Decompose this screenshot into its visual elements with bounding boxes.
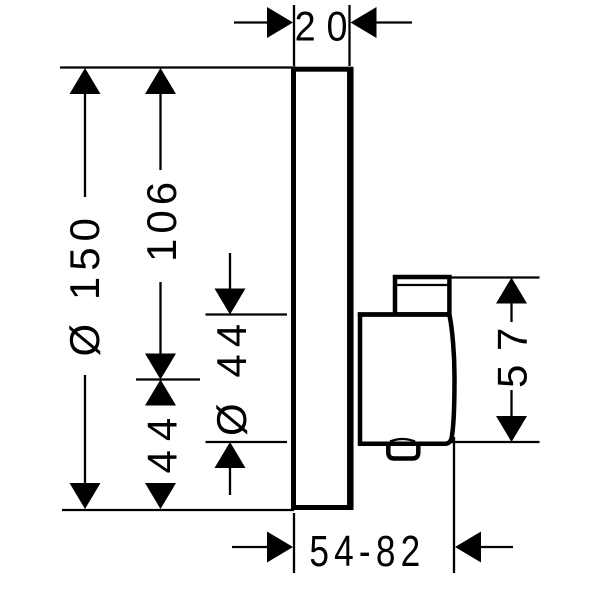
node: 57 bottom arrowhead [496,416,527,442]
wire: 57 dim line upper segment [510,302,512,323]
svg-text:Ø 150: Ø 150 [61,212,108,356]
handle body: shoulder top line [358,312,451,317]
wire: 106 dim line upper segment [159,92,161,170]
wire: dia150 dim line upper segment [84,92,86,197]
node: dia44 bottom arrowhead pointing up [215,442,246,468]
svg-text:44: 44 [139,409,186,474]
wire: bottom-left horizontal extension line [62,509,294,511]
wire: top-left horizontal extension line [60,66,296,68]
wire: 54-82 left extension line [293,513,295,573]
svg-text:Ø 44: Ø 44 [208,317,255,436]
handle knob: inner top line [397,284,449,286]
svg-text:54-82: 54-82 [309,527,425,576]
node: dia150 top arrowhead [70,68,101,94]
wire: dia44 bottom tick line [206,441,288,443]
wire: 106/44 junction tick line [136,378,200,380]
node: mid-44 bottom arrowhead [145,483,176,509]
svg-text:106: 106 [138,177,185,262]
wire: 106 dim line lower segment [159,282,161,355]
wire: 54-82 left arrow tail [232,546,268,548]
handle knob: upper small rectangle [395,277,449,315]
wire: 54-82 right arrow tail [481,546,513,548]
wire: dia150 dim line lower segment [84,375,86,485]
node: 57 top arrowhead [496,278,527,304]
wire: 54-82 right extension line [453,437,455,573]
node: 54-82 right arrowhead [455,532,481,563]
node: 20-dim right arrowhead [351,7,377,38]
node: mid-44 top arrowhead pointing up [145,380,176,406]
wire: dia44 top tick line [206,313,288,315]
wire: 20-dim left arrow tail [234,21,270,23]
node: 54-82 left arrowhead [267,532,293,563]
wire: 57-dim bottom extension line [450,441,540,443]
wire: 20-dim left extension line [293,5,295,66]
handle body: main cylinder with curved right edge [360,315,455,444]
node: dia150 bottom arrowhead [70,483,101,509]
handle tab: lower clip [388,444,418,459]
node: 106 bottom arrowhead [145,354,176,380]
svg-text:5 7: 5 7 [489,327,536,388]
handle tab: bump above bottom line [390,439,415,442]
wire: 20-dim right extension line [348,5,350,66]
node: 106 top arrowhead [145,68,176,94]
wire: 20-dim right arrow tail [376,21,412,23]
wire: dia44 lower vertical line [229,466,231,495]
wire: 57-dim top extension line [449,276,540,278]
svg-text:20: 20 [295,4,359,50]
plate: wall plate rectangle [294,69,351,507]
wire: 57 dim line lower segment [510,390,512,417]
plate: right edge thicker overlay [347,67,354,510]
wire: dia44 upper vertical line [229,253,231,290]
node: dia44 top arrowhead pointing down [215,289,246,315]
node: 20-dim left arrowhead [267,7,293,38]
